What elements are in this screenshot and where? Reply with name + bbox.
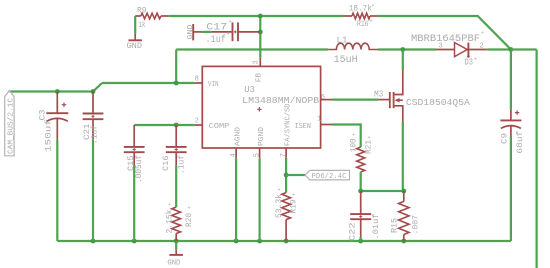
svg-text:3: 3	[439, 43, 443, 51]
svg-text:2.15k: 2.15k	[165, 209, 174, 233]
ground GND under R9	[134, 34, 136, 41]
svg-text:VIN: VIN	[208, 81, 219, 89]
capacitor C21 .1uf input	[92, 92, 94, 114]
node junction C21 on input wire	[91, 89, 96, 94]
capacitor C15 .005uf	[133, 125, 135, 147]
svg-text:2: 2	[195, 117, 199, 125]
node junction C17 right plate	[258, 30, 263, 35]
svg-text:7: 7	[280, 153, 288, 157]
pin 4 AGND stub	[235, 148, 237, 158]
svg-text:8: 8	[195, 76, 199, 84]
svg-text:C16: C16	[162, 155, 171, 171]
svg-text:CSD18504Q5A: CSD18504Q5A	[406, 97, 470, 108]
svg-text:C22: C22	[349, 222, 358, 241]
pin 7 FA stub	[285, 148, 287, 158]
svg-text:LM3488MM/NOPB: LM3488MM/NOPB	[242, 95, 319, 106]
ground GND bottom rail	[175, 241, 177, 250]
svg-text:PGND: PGND	[258, 127, 266, 146]
svg-text:+: +	[168, 202, 171, 208]
wire switch node row (L1 to D3 anode)	[378, 48, 436, 50]
svg-text:53.3k: 53.3k	[275, 194, 284, 218]
wire FA pin down	[285, 158, 287, 193]
svg-text:ISEN: ISEN	[295, 123, 311, 131]
pin 3 FB stub	[259, 58, 261, 67]
svg-text:+: +	[227, 32, 230, 38]
node junction ground rail	[132, 239, 137, 244]
node junction sense left	[358, 189, 363, 194]
wire VIN row from input jog to IC pin 8	[102, 82, 195, 84]
svg-text:1: 1	[317, 115, 321, 123]
resistor R16 18.7k	[344, 15, 352, 17]
wire bottom ground rail	[57, 240, 511, 242]
wire D3 cathode to output node	[487, 48, 511, 50]
svg-text:+: +	[292, 193, 295, 199]
node junction ground rail	[358, 239, 363, 244]
node junction ground rail	[401, 239, 406, 244]
svg-text:+: +	[229, 19, 232, 25]
wire output node down to C9	[510, 50, 512, 110]
pin 2 COMP stub	[195, 124, 203, 126]
svg-text:68uf: 68uf	[516, 130, 525, 153]
wire gate of M3 from IC pin 6	[321, 99, 332, 101]
pin 8 VIN stub	[195, 82, 203, 84]
node junction C3 on input wire	[55, 89, 60, 94]
svg-text:100: 100	[350, 138, 359, 152]
capacitor C3 150uf polarized	[56, 92, 58, 114]
svg-text:M3: M3	[374, 90, 383, 100]
svg-text:L1: L1	[337, 35, 348, 45]
svg-text:+: +	[278, 187, 281, 193]
node junction switch node (drain tap)	[400, 47, 405, 52]
wire ISEN to R21	[332, 125, 361, 148]
svg-text:.01uf: .01uf	[372, 213, 381, 239]
svg-text:2: 2	[480, 43, 484, 51]
svg-text:R20: R20	[185, 213, 194, 227]
svg-text:CAM_BUS/2.1C: CAM_BUS/2.1C	[8, 98, 16, 154]
node junction ground rail	[91, 239, 96, 244]
wire top feedback rail left segment	[169, 15, 344, 17]
svg-text:C3: C3	[39, 109, 48, 120]
capacitor C9 68uf polarized	[510, 110, 512, 121]
flag PD6/2.4C	[305, 170, 349, 180]
svg-text:R21: R21	[365, 140, 374, 154]
svg-text:.1uf: .1uf	[178, 155, 187, 174]
wire COMP row	[134, 124, 194, 126]
resistor R21 100	[357, 147, 365, 172]
pin 5 PGND stub	[259, 148, 261, 158]
ground GND at C17	[192, 24, 194, 40]
node junction FA / PD6 flag	[284, 173, 289, 178]
svg-text:+: +	[474, 57, 477, 63]
svg-text:+: +	[368, 135, 371, 141]
wire input row from CAM_BUS flag with diagonal jog	[9, 83, 102, 92]
node junction ground rail	[284, 239, 289, 244]
wire AGND down	[235, 158, 237, 241]
svg-text:+: +	[188, 206, 191, 212]
IC origin cross	[257, 107, 261, 111]
svg-text:18.7k: 18.7k	[349, 5, 372, 14]
op-amp U3 LM3488 body	[202, 66, 320, 148]
wire to PD6 flag	[286, 174, 305, 176]
resistor R15 .007	[403, 191, 405, 201]
svg-text:C9: C9	[500, 133, 509, 144]
svg-text:.007: .007	[412, 215, 421, 235]
svg-text:C17: C17	[206, 23, 227, 34]
wire output node to right branch	[511, 48, 537, 50]
svg-text:GND: GND	[167, 259, 180, 267]
svg-text:6: 6	[321, 94, 325, 102]
wire inductor row left (VIN node to L1)	[176, 48, 328, 50]
inductor L1 15uH	[328, 43, 378, 49]
svg-text:FA/SYNC/SD: FA/SYNC/SD	[284, 104, 292, 147]
svg-text:MBRB1645PBF: MBRB1645PBF	[411, 34, 480, 45]
wire top feedback rail right segment with diagonal to output node	[378, 16, 511, 50]
svg-text:R9: R9	[137, 7, 147, 16]
svg-text:3: 3	[252, 60, 260, 64]
resistor R9 1k	[135, 15, 141, 17]
wire FB node vertical (divider midpoint down to C17 and FB pin)	[259, 16, 261, 58]
svg-text:5: 5	[253, 153, 261, 157]
node junction C16 on COMP wire	[174, 123, 179, 128]
node junction sense right	[401, 189, 406, 194]
node junction ground rail	[234, 239, 239, 244]
svg-text:.005uf: .005uf	[135, 155, 144, 183]
svg-text:GND: GND	[127, 42, 143, 51]
svg-text:+: +	[352, 133, 355, 139]
svg-text:D3: D3	[465, 58, 474, 68]
svg-text:.1uf: .1uf	[91, 125, 100, 144]
diode D3 MBRB1645PBF	[436, 49, 454, 51]
capacitor C17 .1uf	[193, 31, 201, 33]
wire R9 left lead down to ground	[134, 16, 136, 34]
svg-text:+: +	[370, 19, 373, 25]
node junction output node	[509, 47, 514, 52]
svg-text:AGND: AGND	[234, 127, 242, 146]
svg-text:R15: R15	[391, 218, 400, 233]
node junction ground rail	[257, 239, 262, 244]
svg-text:COMP: COMP	[209, 123, 230, 131]
capacitor C22 .01uf	[360, 191, 362, 214]
node junction top rail / FB vertical	[258, 14, 263, 19]
flag CAM_BUS/2.1C	[5, 91, 14, 156]
wire sense row	[361, 190, 404, 192]
svg-text:U3: U3	[244, 85, 255, 95]
svg-text:150uf: 150uf	[45, 119, 54, 152]
svg-text:FB: FB	[256, 73, 264, 82]
wire R21 to sense node	[360, 172, 362, 191]
svg-text:+: +	[481, 31, 484, 37]
node junction VIN wire / vertical	[174, 81, 179, 86]
transistor M3 CSD18504Q5A nmos	[402, 50, 404, 71]
capacitor C16 .1uf comp	[175, 125, 177, 147]
svg-text:PD6/2.4C: PD6/2.4C	[312, 173, 347, 181]
svg-text:.1uf: .1uf	[206, 34, 226, 46]
wire PGND down	[259, 158, 261, 241]
svg-text:R19: R19	[289, 199, 298, 213]
wire vertical VIN to inductor row	[175, 50, 177, 84]
svg-text:15uH: 15uH	[334, 55, 358, 66]
svg-text:R16: R16	[357, 20, 369, 29]
svg-text:4: 4	[230, 153, 238, 157]
wire right branch vertical to bottom edge	[535, 50, 537, 268]
svg-text:1k: 1k	[139, 21, 146, 30]
pin 1 ISEN stub	[321, 124, 332, 126]
resistor R20 2.15k	[172, 207, 181, 233]
resistor R19 53.3k	[282, 193, 291, 220]
svg-text:+: +	[372, 3, 375, 9]
node junction ground rail	[174, 239, 179, 244]
